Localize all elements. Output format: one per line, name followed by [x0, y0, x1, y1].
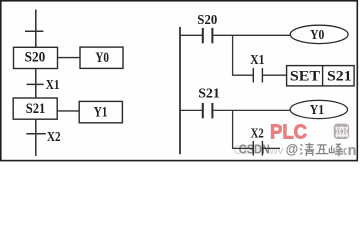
wire after contact X2: [263, 147, 280, 149]
svg-text:S21: S21: [327, 69, 352, 85]
svg-text:X2: X2: [251, 126, 264, 141]
svg-text:S20: S20: [25, 50, 46, 66]
svg-text:Y1: Y1: [94, 105, 108, 121]
watermark text CSDN @: [239, 141, 298, 156]
wire contact X1 to SET box: [263, 74, 287, 76]
transition tick X2: [26, 133, 46, 135]
svg-text:S20: S20: [197, 13, 217, 28]
wire rung2 contact to coil Y1: [213, 109, 290, 111]
wire branch2 horizontal to contact X2: [232, 147, 253, 149]
contact X1 (bars): [252, 68, 254, 83]
watermark letter c fragment: [344, 149, 347, 155]
wire S20 to Y0 box: [58, 57, 81, 59]
instruction box SET S21: [287, 66, 355, 86]
wire: SFC vertical S20 to S21: [35, 68, 37, 98]
watermark CJK glyph "qing" (drawn): [300, 143, 314, 156]
svg-text:n: n: [348, 143, 357, 159]
contact S21 (bars): [202, 103, 204, 118]
wire branch1 vertical from rung1: [232, 35, 234, 75]
contact S20 (bars): [202, 28, 204, 43]
svg-text:Y0: Y0: [310, 28, 324, 43]
figure frame border: [1, 1, 358, 161]
action box Y0: [80, 47, 123, 68]
svg-text:X1: X1: [46, 78, 60, 93]
wire branch1 horizontal to contact X1: [232, 74, 253, 76]
wire S21 to Y1 box: [57, 110, 79, 112]
wire rung2 rail to contact S21: [180, 109, 202, 111]
watermark CJK glyph "yun" (drawn): [316, 145, 329, 154]
svg-text:wv: wv: [269, 143, 284, 157]
svg-text:@: @: [286, 142, 298, 157]
wire branch2 vertical from rung2: [232, 110, 234, 148]
coil Y0 (ellipse): [290, 25, 348, 43]
wire: SFC vertical below S21: [35, 119, 37, 156]
svg-text:Y0: Y0: [95, 50, 109, 66]
watermark logo (gray rounded square with knot): [334, 124, 349, 139]
watermark CJK glyph "feng" (drawn): [329, 144, 343, 157]
svg-text:X2: X2: [47, 130, 61, 145]
svg-text:SET: SET: [290, 69, 321, 85]
step box S20: [14, 47, 58, 68]
svg-text:X1: X1: [250, 53, 264, 68]
wire rung1 rail to contact S20: [180, 34, 202, 36]
transition tick X1: [27, 83, 44, 85]
svg-text:S21: S21: [198, 87, 220, 102]
svg-text:Y1: Y1: [310, 103, 324, 118]
action box Y1: [79, 101, 122, 122]
transition tick (top): [25, 30, 43, 32]
contact X2 (bars): [252, 141, 254, 156]
step box S21: [13, 98, 57, 119]
wire rung1 contact to coil Y0: [213, 34, 290, 36]
coil Y1 (ellipse): [290, 100, 347, 118]
ladder left power rail: [179, 27, 181, 154]
svg-text:S21: S21: [26, 101, 46, 117]
svg-text:PLC: PLC: [270, 121, 307, 143]
wire: SFC top entry vertical: [35, 10, 37, 48]
